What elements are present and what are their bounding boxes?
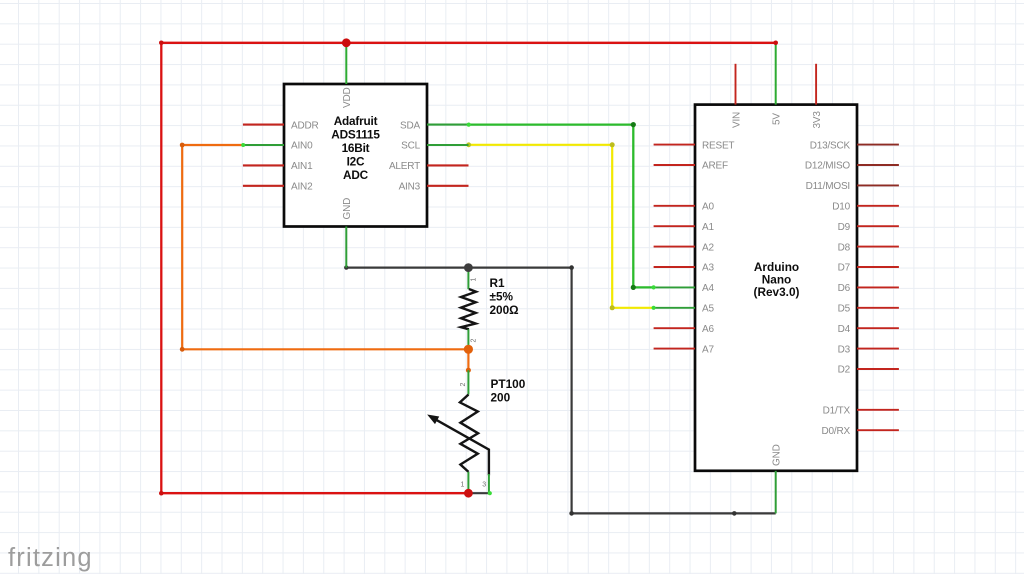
wire: orange AIN0 to R1/PT100 junction xyxy=(180,143,471,373)
svg-text:ADDR: ADDR xyxy=(291,120,319,131)
svg-text:D2: D2 xyxy=(838,365,851,376)
svg-text:AIN0: AIN0 xyxy=(291,141,313,152)
pin AIN3 (U1) xyxy=(399,182,469,193)
svg-text:VIN: VIN xyxy=(731,112,742,128)
pin D9 (U2) xyxy=(838,222,899,233)
svg-text:D7: D7 xyxy=(838,263,851,274)
svg-text:16Bit: 16Bit xyxy=(342,141,370,155)
svg-text:AIN1: AIN1 xyxy=(291,161,313,172)
wire: black GND net (ADS GND to R1 to right side to Arduino GND) xyxy=(344,265,776,515)
pin AIN2 (U1) xyxy=(243,182,313,193)
svg-text:D11/MOSI: D11/MOSI xyxy=(806,181,850,192)
pin AIN0 (U1) xyxy=(241,141,313,152)
svg-text:D8: D8 xyxy=(838,242,851,253)
svg-text:3: 3 xyxy=(482,482,486,489)
pin D10 (U2) xyxy=(832,202,899,213)
pin A4 (U2) xyxy=(652,283,715,294)
pin GND (U2) xyxy=(772,444,783,513)
svg-text:3V3: 3V3 xyxy=(812,111,823,129)
pin D13/SCK (U2) xyxy=(810,140,899,151)
svg-text:D10: D10 xyxy=(832,202,850,213)
junction: black at R1 pin1 xyxy=(464,263,473,272)
pin ADDR (U1) xyxy=(243,120,319,131)
pin SCL (U1) xyxy=(401,141,468,152)
pin D0/RX (U2) xyxy=(822,426,899,437)
svg-text:ADC: ADC xyxy=(343,168,369,182)
svg-text:A3: A3 xyxy=(702,263,714,274)
svg-text:AIN3: AIN3 xyxy=(399,182,421,193)
svg-text:D5: D5 xyxy=(838,304,851,315)
op-amp/IC U1: Adafruit ADS1115 body xyxy=(284,84,427,227)
svg-text:(Rev3.0): (Rev3.0) xyxy=(754,285,800,299)
svg-text:A6: A6 xyxy=(702,324,714,335)
svg-text:D0/RX: D0/RX xyxy=(822,426,851,437)
svg-text:D9: D9 xyxy=(838,222,851,233)
svg-text:±5%: ±5% xyxy=(490,289,514,303)
svg-text:2: 2 xyxy=(471,339,478,343)
svg-text:200: 200 xyxy=(491,391,511,405)
pin RESET (U2) xyxy=(654,140,735,151)
pin D11/MOSI (U2) xyxy=(806,181,899,192)
svg-text:SCL: SCL xyxy=(401,141,420,152)
svg-text:D6: D6 xyxy=(838,283,851,294)
svg-text:R1: R1 xyxy=(490,276,506,290)
pin D7 (U2) xyxy=(838,263,899,274)
svg-text:SDA: SDA xyxy=(400,120,420,131)
pin SDA (U1) xyxy=(400,120,471,131)
wire: black stub red-dot to PT100 pin3 xyxy=(468,492,489,494)
svg-text:A7: A7 xyxy=(702,344,714,355)
resistor R1 xyxy=(461,268,478,350)
pin A7 (U2) xyxy=(654,344,715,355)
pin D8 (U2) xyxy=(838,242,899,253)
wire: yellow SCL to A5 xyxy=(466,142,653,310)
svg-text:ADS1115: ADS1115 xyxy=(331,128,380,142)
pin GND (U1) xyxy=(342,198,353,268)
svg-text:A0: A0 xyxy=(702,202,714,213)
svg-text:GND: GND xyxy=(342,198,353,220)
svg-text:1: 1 xyxy=(471,278,478,282)
pin A1 (U2) xyxy=(654,222,715,233)
label PT100 value xyxy=(491,377,526,405)
svg-text:A1: A1 xyxy=(702,222,714,233)
svg-text:D1/TX: D1/TX xyxy=(823,406,851,417)
svg-text:I2C: I2C xyxy=(347,154,365,168)
svg-text:AREF: AREF xyxy=(702,161,728,172)
pin D12/MISO (U2) xyxy=(805,161,899,172)
pin A5 (U2) xyxy=(652,304,715,315)
pin A0 (U2) xyxy=(654,202,715,213)
svg-text:RESET: RESET xyxy=(702,140,734,151)
potentiometer PT100 xyxy=(429,370,492,495)
svg-text:AIN2: AIN2 xyxy=(291,182,313,193)
svg-text:VDD: VDD xyxy=(342,87,353,108)
pin 3V3 (U2) xyxy=(812,64,823,129)
svg-text:fritzing: fritzing xyxy=(8,544,93,572)
label R1 value xyxy=(490,276,519,317)
svg-text:A2: A2 xyxy=(702,242,714,253)
pin D4 (U2) xyxy=(838,324,899,335)
pin VIN (U2) xyxy=(731,64,742,128)
svg-text:D3: D3 xyxy=(838,344,851,355)
junction: red rail over VDD xyxy=(342,38,351,47)
svg-text:D4: D4 xyxy=(838,324,851,335)
svg-text:D12/MISO: D12/MISO xyxy=(805,161,851,172)
svg-text:GND: GND xyxy=(772,444,783,466)
pin D2 (U2) xyxy=(838,365,899,376)
pin AIN1 (U1) xyxy=(243,161,313,172)
pin ALERT (U1) xyxy=(389,161,469,172)
junction: orange at R1 pin2 xyxy=(464,345,473,354)
svg-text:PT100: PT100 xyxy=(491,377,526,391)
svg-text:D13/SCK: D13/SCK xyxy=(810,140,851,151)
pin VDD (U1) green to rail xyxy=(342,43,353,108)
svg-text:Adafruit: Adafruit xyxy=(334,114,378,128)
svg-text:5V: 5V xyxy=(772,113,783,125)
IC U2: Arduino Nano body xyxy=(695,105,857,471)
pin A2 (U2) xyxy=(654,242,715,253)
svg-text:200Ω: 200Ω xyxy=(490,303,519,317)
pin D1/TX (U2) xyxy=(823,406,899,417)
svg-text:1: 1 xyxy=(461,482,465,489)
svg-text:2: 2 xyxy=(460,383,467,387)
wire: orange short segment to PT100 pin2 xyxy=(467,349,469,370)
svg-text:A4: A4 xyxy=(702,283,714,294)
pin D6 (U2) xyxy=(838,283,899,294)
pin D5 (U2) xyxy=(838,304,899,315)
svg-text:ALERT: ALERT xyxy=(389,161,420,172)
pin A3 (U2) xyxy=(654,263,715,274)
pin AREF (U2) xyxy=(654,161,728,172)
pin A6 (U2) xyxy=(654,324,715,335)
wiper of PT100 xyxy=(436,420,489,475)
junction: red at PT100 pin1 xyxy=(464,489,473,498)
wire: red left vertical + bottom horizontal xyxy=(161,43,468,493)
pin 5V (U2) green to rail xyxy=(772,41,783,126)
pin D3 (U2) xyxy=(838,344,899,355)
wire: red power rail top xyxy=(159,41,776,496)
wire: green SDA to A4 xyxy=(469,122,654,290)
svg-text:A5: A5 xyxy=(702,304,714,315)
